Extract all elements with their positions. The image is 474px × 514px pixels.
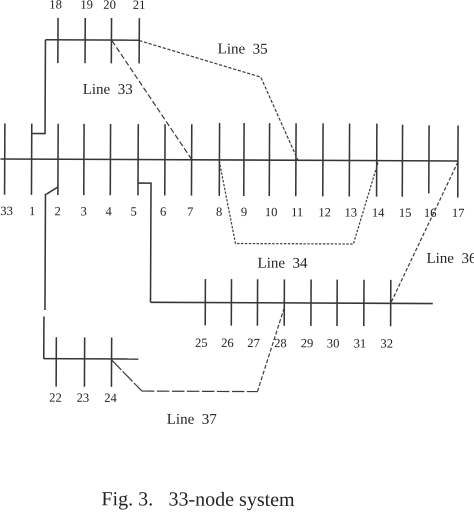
- node 19 tick: [84, 18, 86, 63]
- tie line 36 (node 17 to node 32), dashed: [391, 162, 458, 304]
- node 6 tick: [164, 124, 166, 195]
- node 26 tick: [230, 279, 232, 325]
- lower lateral bus (nodes 25-32): [151, 302, 433, 303]
- tie line 37 (node 24 to node 28), dashed: [111, 360, 142, 391]
- svg-text:11: 11: [291, 205, 303, 219]
- svg-text:10: 10: [265, 205, 278, 219]
- wire: jog from node 5 down to lower lateral bus: [138, 183, 152, 302]
- tie line 35 (node 21 to node 11), dashed: [139, 41, 299, 160]
- node 10 tick: [268, 123, 270, 196]
- node 33 tick: [4, 123, 6, 194]
- node 9 tick: [243, 123, 245, 196]
- node 22 tick: [55, 337, 57, 386]
- svg-text:27: 27: [247, 336, 260, 350]
- svg-text:33-node system: 33-node system: [168, 489, 295, 512]
- tie line 34 (node 8 to node 14), dashed: [219, 161, 378, 244]
- wire: feeder from top bus down to node 1: [32, 40, 46, 134]
- node 27 tick: [256, 279, 258, 325]
- svg-text:25: 25: [195, 336, 208, 350]
- svg-text:18: 18: [49, 0, 62, 12]
- node 16 tick: [428, 125, 430, 193]
- svg-text:28: 28: [274, 336, 287, 350]
- tie line 37 riser to node 28, dashed: [257, 308, 284, 392]
- node 25 tick: [204, 279, 206, 325]
- node 5 tick: [137, 124, 139, 195]
- bottom lateral bus (nodes 22-24): [43, 358, 138, 360]
- svg-text:8: 8: [216, 205, 222, 219]
- wire: feeder from node 2 down toward bottom lateral, upper diagonal: [46, 187, 58, 194]
- svg-text:26: 26: [221, 336, 234, 350]
- svg-text:1: 1: [29, 204, 35, 218]
- tie line 37 horizontal run, dashed: [142, 390, 257, 393]
- svg-text:19: 19: [80, 0, 93, 12]
- node 3 tick: [83, 124, 85, 195]
- svg-text:4: 4: [106, 204, 113, 218]
- svg-text:21: 21: [133, 0, 146, 12]
- svg-text:Line 37: Line 37: [167, 412, 218, 428]
- node 2 tick: [57, 124, 59, 195]
- node 1 tick: [30, 124, 32, 195]
- svg-text:20: 20: [103, 0, 116, 12]
- node 14 tick: [376, 124, 378, 197]
- node 15 tick: [401, 125, 403, 197]
- svg-text:31: 31: [354, 337, 367, 351]
- node 29 tick: [310, 280, 312, 326]
- svg-text:7: 7: [187, 205, 193, 219]
- node 24 tick: [110, 337, 112, 386]
- node 28 tick: [283, 279, 285, 325]
- svg-text:Line 33: Line 33: [83, 82, 133, 98]
- svg-text:Line 35: Line 35: [218, 41, 268, 57]
- svg-text:14: 14: [372, 206, 385, 220]
- svg-text:30: 30: [327, 336, 340, 350]
- svg-text:13: 13: [344, 205, 357, 219]
- node 8 tick: [218, 123, 220, 196]
- node 18 tick: [57, 18, 59, 63]
- node 30 tick: [336, 280, 338, 326]
- svg-text:3: 3: [81, 204, 87, 218]
- node 12 tick: [322, 123, 324, 196]
- svg-text:12: 12: [318, 205, 331, 219]
- svg-text:33: 33: [0, 204, 13, 218]
- svg-text:9: 9: [241, 205, 247, 219]
- node 23 tick: [83, 337, 85, 386]
- svg-text:32: 32: [380, 337, 393, 351]
- node 21 tick: [138, 18, 140, 63]
- svg-text:24: 24: [104, 391, 117, 405]
- svg-text:Line 34: Line 34: [258, 256, 309, 272]
- wire: feeder vertical lower segment: [43, 316, 45, 358]
- node 11 tick: [295, 123, 297, 196]
- node 17 tick: [457, 125, 459, 197]
- svg-text:29: 29: [301, 336, 314, 350]
- node 13 tick: [348, 123, 350, 196]
- svg-text:Line 36: Line 36: [426, 251, 474, 267]
- node 32 tick: [390, 280, 392, 326]
- svg-text:16: 16: [424, 206, 437, 220]
- node 31 tick: [363, 280, 365, 326]
- main feeder bus (nodes 33,1-17): [0, 159, 457, 161]
- svg-text:Fig. 3.: Fig. 3.: [101, 488, 153, 510]
- tie line 33 (node 20 to node 7), dashed: [111, 41, 192, 160]
- node 7 tick: [190, 124, 192, 195]
- svg-text:6: 6: [160, 205, 166, 219]
- node 4 tick: [109, 124, 111, 195]
- node 20 tick: [110, 18, 112, 63]
- top lateral bus (nodes 18-21): [45, 39, 139, 41]
- svg-text:23: 23: [77, 391, 90, 405]
- svg-text:2: 2: [55, 204, 61, 218]
- wire: feeder vertical upper segment: [44, 194, 47, 310]
- svg-text:22: 22: [49, 391, 62, 405]
- svg-text:17: 17: [452, 206, 465, 220]
- svg-text:5: 5: [131, 205, 137, 219]
- svg-text:15: 15: [399, 206, 412, 220]
